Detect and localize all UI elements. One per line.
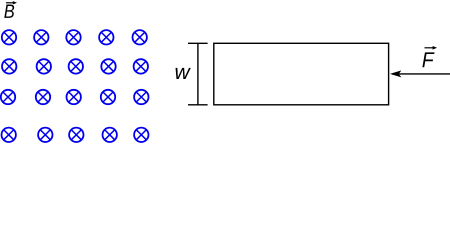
field symbol B-into-page row4 col3 bbox=[69, 128, 83, 142]
field symbol B-into-page row2 col1 bbox=[2, 59, 16, 73]
field symbol B-into-page row3 col3 bbox=[67, 90, 81, 104]
field symbol B-into-page row2 col4 bbox=[101, 59, 115, 73]
label F (force vector) bbox=[422, 46, 437, 67]
field symbol B-into-page row3 col5 bbox=[134, 90, 148, 104]
field symbol B-into-page row1 col5 bbox=[133, 30, 147, 44]
field symbol B-into-page row2 col5 bbox=[134, 59, 148, 73]
field symbol B-into-page row3 col4 bbox=[101, 90, 115, 104]
width bracket bbox=[188, 43, 208, 105]
field symbol B-into-page row4 col1 bbox=[2, 128, 16, 142]
field symbol B-into-page row2 col2 bbox=[37, 59, 51, 73]
field symbol B-into-page row1 col1 bbox=[2, 30, 16, 44]
field symbol B-into-page row3 col1 bbox=[1, 90, 15, 104]
label B (magnetic field vector) bbox=[4, 1, 17, 18]
field symbol B-into-page row4 col4 bbox=[103, 128, 117, 142]
force arrow bbox=[390, 70, 450, 77]
conducting loop rectangle bbox=[214, 43, 389, 105]
label w bbox=[176, 68, 191, 79]
field symbol B-into-page row1 col2 bbox=[34, 30, 48, 44]
field symbol B-into-page row1 col4 bbox=[99, 30, 113, 44]
field symbol B-into-page row3 col2 bbox=[36, 90, 50, 104]
field symbol B-into-page row1 col3 bbox=[66, 30, 80, 44]
field symbol B-into-page row2 col3 bbox=[69, 59, 83, 73]
field symbol B-into-page row4 col2 bbox=[38, 128, 52, 142]
field symbol B-into-page row4 col5 bbox=[134, 128, 148, 142]
